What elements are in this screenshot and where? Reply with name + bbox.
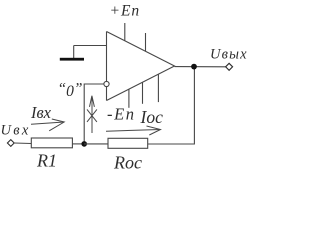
pin +En supply <box>124 23 126 41</box>
svg-text:Iвх: Iвх <box>30 103 52 122</box>
svg-text:Uвых: Uвых <box>210 47 248 63</box>
svg-text:R1: R1 <box>36 151 57 171</box>
svg-text:Uвх: Uвх <box>1 123 31 139</box>
pin NC top <box>145 33 147 51</box>
svg-text:“0”: “0” <box>58 81 83 101</box>
wire op-amp output <box>175 66 226 68</box>
terminal Uвх <box>7 140 14 147</box>
wire input to R1 <box>14 142 31 145</box>
wire R1 to node <box>72 143 84 145</box>
current arrow Iвх <box>31 119 64 131</box>
resistor R1 <box>31 138 72 148</box>
terminal Uвых <box>226 63 233 70</box>
inverting input bubble <box>104 81 109 86</box>
op-amp U1 <box>107 32 175 101</box>
node A junction <box>81 141 87 147</box>
wire inverting input <box>84 84 104 144</box>
current arrow Iос <box>106 126 161 135</box>
svg-text:Rос: Rос <box>113 153 142 173</box>
resistor Roc <box>108 138 148 148</box>
pin -En supply <box>128 89 130 108</box>
svg-text:-En: -En <box>107 105 136 124</box>
svg-text:Iос: Iос <box>140 107 164 127</box>
zero voltage arrow crossed <box>87 96 97 133</box>
wire node to Roc <box>84 143 108 145</box>
pin NC bottom 1 <box>142 82 144 104</box>
wire Roc to output node <box>148 67 195 144</box>
ground <box>60 46 84 61</box>
wire non-inverting input <box>74 45 107 47</box>
node output junction <box>191 64 197 70</box>
svg-text:+En: +En <box>110 3 141 20</box>
pin NC bottom 2 <box>157 74 159 102</box>
